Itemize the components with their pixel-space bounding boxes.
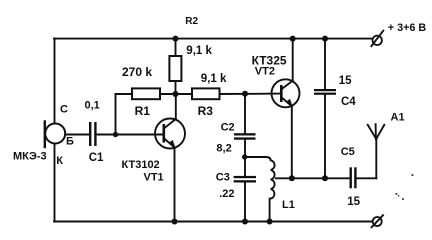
svg-text:VT1: VT1 (144, 172, 164, 184)
wire: C3 bottom lead (244, 183, 246, 222)
scan speck bottom right 1 (396, 193, 398, 195)
svg-text:15: 15 (339, 75, 352, 87)
capacitor C2 (234, 133, 256, 140)
svg-text:C3: C3 (216, 172, 230, 184)
wire: C2 to C3 (244, 140, 246, 176)
wire: C4 bottom lead (324, 95, 326, 179)
wire: C1 to VT1 base (97, 134, 163, 136)
scan speck bottom right 2 (398, 195, 400, 197)
node: R3/C2/VT2 base junction (242, 91, 248, 97)
svg-text:R1: R1 (135, 104, 151, 118)
node: VT2 emitter / L1 tap junction (289, 175, 295, 181)
svg-text:С: С (60, 104, 68, 116)
svg-text:R2: R2 (185, 16, 198, 27)
transistor VT2 КТ325 (272, 39, 300, 179)
node: junction C1/R1 (113, 132, 118, 137)
svg-text:VT2: VT2 (255, 66, 275, 78)
capacitor C1 (89, 122, 97, 146)
svg-text:9,1 k: 9,1 k (186, 45, 212, 57)
svg-text:Б: Б (66, 136, 74, 148)
svg-text:L1: L1 (282, 199, 295, 211)
node: R1/R2/R3/VT1 collector junction (173, 91, 179, 97)
wire: C4 top lead (324, 39, 326, 89)
node: C3 on ground rail (242, 219, 248, 225)
svg-text:C1: C1 (89, 152, 104, 164)
svg-text:.22: .22 (219, 188, 234, 200)
transistor VT1 КТ3102 (155, 94, 185, 222)
wire: ground bottom rail (54, 221, 373, 223)
svg-text:+ 3+6 В: + 3+6 В (388, 22, 427, 34)
capacitor C4 (314, 89, 336, 95)
svg-text:КТ3102: КТ3102 (122, 159, 160, 171)
svg-text:A1: A1 (391, 112, 405, 124)
wire: R3 to VT2 base and C2 (220, 93, 281, 95)
svg-text:C5: C5 (341, 146, 355, 158)
wire: C2 top lead (244, 94, 246, 134)
scan speck bottom right 3 (402, 198, 404, 200)
capacitor C5 (350, 167, 357, 188)
node: C4 / tap wire junction (322, 175, 328, 181)
svg-text:C2: C2 (221, 121, 235, 133)
node: VT1 emitter on ground rail (172, 219, 178, 225)
wire: left vertical (mic supply column) (54, 39, 56, 222)
svg-text:МКЭ-3: МКЭ-3 (13, 151, 47, 163)
node: C2/C3/L1 junction (242, 154, 247, 159)
svg-text:0,1: 0,1 (85, 99, 100, 111)
svg-text:15: 15 (347, 196, 360, 208)
node: L1 bottom on ground rail (267, 219, 273, 225)
scan speck right margin (412, 174, 414, 176)
capacitor C3 (234, 176, 256, 183)
terminal: ground return (372, 215, 383, 227)
wire: L1 tap to emitter/C4/C5 (276, 177, 350, 179)
wire: R1 to R3 (160, 93, 192, 95)
node: C4 top on +V rail (322, 36, 328, 42)
resistor R1 (132, 88, 160, 99)
node: R2 top on +V rail (173, 36, 179, 42)
svg-text:К: К (56, 155, 63, 167)
wire: C5 to antenna (357, 177, 377, 179)
svg-text:C4: C4 (341, 96, 356, 108)
resistor R2 (169, 39, 181, 94)
microphone BM1 МКЭ-3 (45, 122, 89, 148)
wire: +V top rail (54, 38, 372, 40)
terminal: +3..6V supply (371, 31, 383, 47)
antenna A1 (368, 124, 385, 178)
node: VT2 collector on +V rail (290, 36, 296, 42)
svg-text:8,2: 8,2 (216, 142, 231, 154)
wire: C2/C3 node to L1 top (245, 156, 266, 158)
svg-text:270 k: 270 k (122, 65, 152, 79)
inductor L1 (266, 157, 275, 222)
resistor R3 (192, 88, 220, 99)
svg-text:9,1 k: 9,1 k (201, 73, 227, 85)
wire: R1 left lead (up from base node) (116, 94, 133, 135)
svg-text:R3: R3 (198, 104, 214, 118)
